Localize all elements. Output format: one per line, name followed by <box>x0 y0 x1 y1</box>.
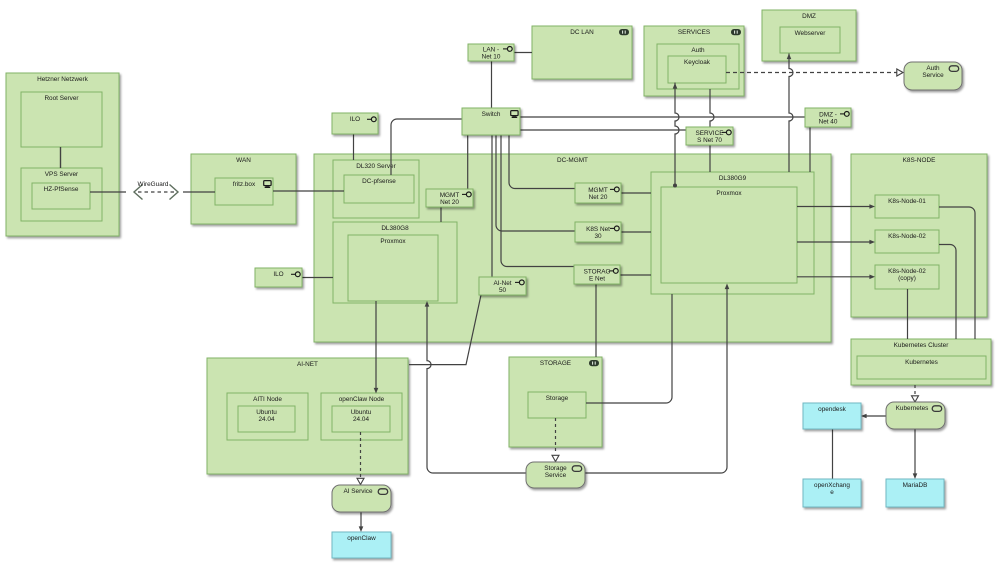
svg-text:opendesk: opendesk <box>818 406 847 413</box>
container STORAGE <box>509 357 602 447</box>
svg-text:STORAG: STORAG <box>584 268 611 275</box>
wire Proxmox G8 to openClaw Node <box>375 301 377 390</box>
node Keycloak <box>668 56 726 83</box>
arrowhead into opendesk <box>861 414 867 419</box>
svg-text:AI Service: AI Service <box>343 488 373 495</box>
node K8s-Node-01 <box>875 195 939 218</box>
node fritz.box <box>215 178 273 205</box>
wire Kubernetes service to MariaDB <box>914 429 916 474</box>
net ILO top <box>332 113 378 134</box>
app openXchange <box>803 479 861 507</box>
node K8s-Node-02 <box>875 230 939 253</box>
svg-text:Kubernetes: Kubernetes <box>905 359 938 366</box>
wire AI Service to openClaw <box>360 512 362 528</box>
arrowhead into openClaw <box>359 526 364 532</box>
svg-text:30: 30 <box>594 233 602 240</box>
svg-text:SERVICE: SERVICE <box>696 130 724 137</box>
svg-text:openClaw Node: openClaw Node <box>339 396 385 403</box>
node openClaw Node <box>321 393 402 440</box>
svg-text:Kubernetes Cluster: Kubernetes Cluster <box>894 342 950 349</box>
WireGuard left chevron <box>134 185 143 200</box>
svg-text:Ubuntu: Ubuntu <box>256 409 277 416</box>
container WAN <box>191 154 296 224</box>
arrowhead into K8s-Node-02 copy <box>869 275 875 280</box>
wire Kubernetes Cluster to Kubernetes service dashed <box>914 385 916 395</box>
svg-text:SERVICES: SERVICES <box>678 29 710 36</box>
svg-text:Storage: Storage <box>546 395 569 402</box>
open arrowhead into Kubernetes service <box>912 396 919 402</box>
wire LAN Net10 to Switch <box>491 61 493 109</box>
svg-text:AI-NET: AI-NET <box>297 361 318 368</box>
arrowhead into openClaw Node <box>374 388 379 394</box>
wire Switch to K8S Net 30 <box>496 135 575 231</box>
svg-text:K8s-Node-02: K8s-Node-02 <box>888 268 926 275</box>
svg-text:Ubuntu: Ubuntu <box>351 409 372 416</box>
wire Auth to DL380G9 <box>710 89 714 172</box>
node AITI Node <box>227 393 308 440</box>
svg-text:fritz.box: fritz.box <box>233 181 256 188</box>
wire MGMT Net20 right to DL380G9 <box>621 192 651 194</box>
net MGMT Net 20 left <box>426 189 473 207</box>
container Kubernetes Cluster <box>851 339 991 385</box>
svg-text:ILO: ILO <box>350 116 360 123</box>
wire Ubuntu to AI Service dashed <box>360 432 362 477</box>
wire Switch to STORAGE Net <box>501 135 574 267</box>
node Proxmox G9 <box>661 187 797 283</box>
wire Proxmox G9 to K8s-Node-01 <box>797 206 870 208</box>
node Ubuntu 24.04 left <box>238 406 295 432</box>
svg-text:Hetzner Netzwerk: Hetzner Netzwerk <box>37 76 89 83</box>
WireGuard right chevron <box>170 185 179 200</box>
svg-text:K8S Net: K8S Net <box>586 226 610 233</box>
svg-text:DC-pfsense: DC-pfsense <box>362 178 396 185</box>
svg-text:HZ-PfSense: HZ-PfSense <box>44 186 79 193</box>
svg-text:Proxmox: Proxmox <box>716 190 742 197</box>
svg-text:AITI Node: AITI Node <box>253 396 282 403</box>
net LAN - Net 10 <box>468 44 514 61</box>
net DMZ - Net 40 <box>805 108 851 127</box>
container AI-NET <box>207 358 408 474</box>
arrowhead into Keycloak <box>673 83 678 89</box>
arrowhead into Proxmox G9 <box>725 284 730 290</box>
svg-text:K8S-NODE: K8S-NODE <box>903 157 936 164</box>
svg-text:(copy): (copy) <box>898 275 916 282</box>
svg-text:ILO: ILO <box>273 271 283 278</box>
wire Storage to Storage Service dashed <box>555 418 557 454</box>
svg-text:MariaDB: MariaDB <box>903 482 928 489</box>
wire Root Server to VPS Server <box>60 147 62 168</box>
svg-text:Net 40: Net 40 <box>819 119 838 126</box>
svg-text:VPS Server: VPS Server <box>45 171 79 178</box>
open arrowhead into Storage Service <box>552 455 559 461</box>
node Auth <box>657 44 739 89</box>
wire AI-NET to AI-Net 50 <box>409 295 481 365</box>
node DL380G9 <box>651 172 814 294</box>
svg-text:Proxmox: Proxmox <box>380 238 406 245</box>
wire MGMT Net20 to DL380G8 <box>440 207 442 222</box>
wire K8s-Node-02 to Kubernetes Cluster <box>939 245 956 340</box>
svg-text:DC-MGMT: DC-MGMT <box>557 157 588 164</box>
svg-text:Auth: Auth <box>691 47 705 54</box>
wire Proxmox G9 to K8s-Node-02 copy <box>797 276 870 278</box>
app openClaw <box>332 532 391 558</box>
wire K8S Net30 to DL380G9 <box>621 231 651 233</box>
node Proxmox G8 <box>348 235 438 301</box>
wire Keycloak to Auth Service dashed <box>726 72 897 74</box>
svg-text:LAN -: LAN - <box>483 46 499 53</box>
svg-text:DL380G9: DL380G9 <box>719 175 747 182</box>
open arrowhead into Auth Service <box>897 69 903 76</box>
wire WireGuard to fritz.box <box>183 191 215 193</box>
svg-text:Kubernetes: Kubernetes <box>896 405 929 412</box>
wire Switch to MGMT Net20 right <box>509 135 575 189</box>
wire Switch to AI-Net 50 <box>491 135 493 277</box>
svg-text:Net 10: Net 10 <box>482 54 501 61</box>
wire Proxmox G9 to Keycloak <box>675 83 679 185</box>
wire Switch to DC-pfsense <box>391 119 462 175</box>
wire Switch to MGMT Net20 left <box>467 135 469 189</box>
svg-text:E Net: E Net <box>589 276 605 283</box>
open arrowhead into AI Service <box>357 478 364 484</box>
node HZ-PfSense <box>32 183 90 209</box>
wire K8s-Node-01 to Kubernetes Cluster <box>939 207 975 339</box>
svg-text:Keycloak: Keycloak <box>684 59 711 66</box>
svg-text:MGMT: MGMT <box>588 187 608 194</box>
app opendesk <box>803 403 861 429</box>
container Hetzner Netzwerk <box>6 73 119 236</box>
svg-text:STORAGE: STORAGE <box>540 360 571 367</box>
svg-text:Service: Service <box>922 72 944 79</box>
net MGMT Net 20 right <box>575 183 621 203</box>
node K8s-Node-02 copy <box>875 265 939 289</box>
wire Storage to DL380G9 <box>586 294 672 403</box>
node Ubuntu 24.04 right <box>332 406 390 432</box>
arrowhead into K8s-Node-01 <box>869 204 875 209</box>
node Kubernetes inner <box>857 356 986 379</box>
container DC-MGMT <box>314 154 831 342</box>
net ILO left <box>255 268 302 287</box>
svg-text:WireGuard: WireGuard <box>138 181 169 188</box>
net Switch <box>462 108 520 135</box>
node DL380G8 <box>333 222 457 303</box>
container DC LAN <box>532 26 632 79</box>
svg-text:e: e <box>830 489 834 496</box>
svg-text:DMZ: DMZ <box>802 13 816 20</box>
container K8S-NODE <box>851 154 987 317</box>
net STORAGE Net <box>574 265 620 284</box>
service Kubernetes <box>886 402 945 429</box>
svg-text:Service: Service <box>545 472 567 479</box>
wire Proxmox G9 to K8s-Node-02 <box>797 241 870 243</box>
svg-text:MGMT: MGMT <box>440 192 460 199</box>
wire Storage Service to Proxmox G8 <box>427 304 526 473</box>
wire ILO to DL320 Server <box>353 133 355 160</box>
node Root Server <box>21 92 102 147</box>
container DMZ <box>762 10 856 61</box>
svg-text:Webserver: Webserver <box>795 30 827 37</box>
node VPS Server <box>21 168 102 221</box>
app MariaDB <box>886 479 944 507</box>
node junction dot on Proxmox G9 <box>673 184 677 188</box>
net K8S Net 30 <box>575 222 621 242</box>
wire Webserver to DL380G9 <box>789 54 793 173</box>
wire STORAGE Net to DL380G9 <box>620 274 651 276</box>
wire Storage Service to Proxmox G9 <box>585 287 727 473</box>
svg-text:openClaw: openClaw <box>347 535 376 542</box>
wire opendesk to openXchange <box>832 429 834 479</box>
svg-text:50: 50 <box>499 287 507 294</box>
wire Kubernetes service to opendesk <box>864 415 886 417</box>
node Webserver <box>780 27 840 53</box>
net AI-Net 50 <box>479 277 526 295</box>
wire ILO to DL380G8 <box>302 277 333 279</box>
svg-text:Storage: Storage <box>544 465 567 472</box>
svg-text:DL380G8: DL380G8 <box>381 225 409 232</box>
node Storage inner <box>528 392 586 418</box>
svg-text:Net 20: Net 20 <box>589 194 608 201</box>
wire LAN Net10 to DC LAN <box>514 52 532 54</box>
wire K8s-Node-02 copy to Kubernetes Cluster <box>907 289 909 339</box>
net SERVICES Net 70 <box>686 127 733 145</box>
wire HZ-PfSense to WireGuard <box>90 191 126 193</box>
wire fritz.box to DC-pfsense <box>273 190 344 192</box>
node DL320 Server <box>333 160 419 218</box>
svg-text:Auth: Auth <box>926 65 940 72</box>
svg-text:Net 20: Net 20 <box>440 199 459 206</box>
arrowhead into K8s-Node-02 <box>869 240 875 245</box>
svg-text:24.04: 24.04 <box>259 416 275 423</box>
wire DMZ Net40 to DL380G9 <box>809 127 811 172</box>
svg-text:Root Server: Root Server <box>44 95 79 102</box>
svg-text:DMZ -: DMZ - <box>819 111 837 118</box>
service Auth Service <box>904 62 962 90</box>
wire Switch to DMZ Net40 <box>520 116 805 118</box>
svg-text:K8s-Node-01: K8s-Node-01 <box>888 198 926 205</box>
svg-text:24.04: 24.04 <box>353 416 369 423</box>
wire STORAGE Net to STORAGE <box>595 284 597 357</box>
container SERVICES <box>644 26 744 96</box>
node DC-pfsense <box>344 175 414 203</box>
svg-text:Switch: Switch <box>482 111 501 118</box>
svg-text:K8s-Node-02: K8s-Node-02 <box>888 233 926 240</box>
arrowhead into MariaDB <box>913 473 918 479</box>
service Storage Service <box>526 462 585 488</box>
arrowhead into Proxmox G8 <box>425 301 430 307</box>
svg-text:openXchang: openXchang <box>814 482 850 489</box>
svg-text:DC LAN: DC LAN <box>570 29 594 36</box>
svg-text:WAN: WAN <box>236 157 251 164</box>
svg-text:S Net 70: S Net 70 <box>697 137 722 144</box>
svg-text:AI-Net: AI-Net <box>493 280 511 287</box>
wire WireGuard dashed span <box>138 191 174 193</box>
wire Switch to SERVICES Net70 <box>520 129 686 131</box>
arrowhead into Webserver <box>787 54 792 60</box>
service AI Service <box>332 485 391 512</box>
